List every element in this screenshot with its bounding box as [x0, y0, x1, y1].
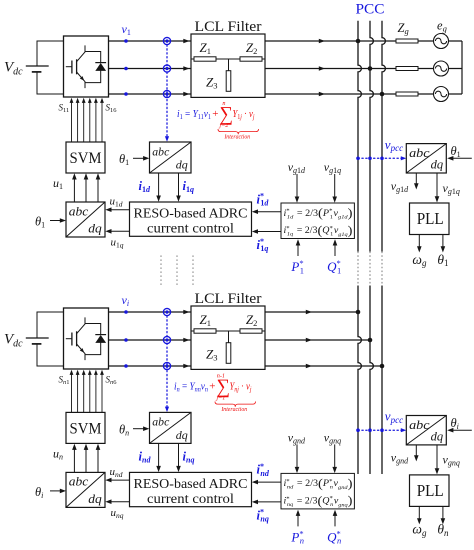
grid impedance Z_g phase A: [396, 39, 418, 43]
u wires dq-to-abc to SVM (n): [72, 444, 100, 473]
i*_d reference wire into RESO (1): [252, 192, 281, 215]
DC source V_dc plates (1): [26, 66, 49, 72]
theta output of PLL (n): [437, 506, 449, 538]
v_pcc measurement dots (1): [356, 157, 384, 161]
current abc-to-dq block (n): [150, 412, 192, 443]
SVM block (n): [66, 412, 105, 443]
svg-text:dq: dq: [88, 221, 102, 236]
svg-text:abc: abc: [152, 415, 170, 429]
svg-text:dq: dq: [431, 430, 444, 444]
svg-text:n: n: [222, 100, 225, 107]
grid impedance Z_g phase C: [396, 92, 418, 96]
svg-text:abc: abc: [152, 144, 170, 158]
svg-text:Interaction: Interaction: [223, 135, 250, 141]
svg-text:n-1: n-1: [217, 373, 225, 380]
v_gq input to power reference box (n): [324, 430, 341, 473]
RESO-based ADRC current control block (n): [130, 472, 252, 507]
admittance interaction equation (1): [177, 100, 259, 140]
svg-text:dq: dq: [176, 428, 188, 442]
i_q wire abc/dq to RESO (1): [176, 173, 194, 202]
v_gd input to power reference box (n): [288, 430, 306, 473]
svg-text:LCL Filter: LCL Filter: [195, 291, 262, 307]
i_d wire abc/dq to RESO (n): [139, 443, 161, 472]
theta input to current abc/dq (n): [119, 422, 149, 437]
LCL filter 1 box: [191, 34, 265, 97]
gate signal labels Sn1 Sn6: [59, 375, 118, 387]
LCL filter n internal single-line: Z1 series: [191, 329, 265, 333]
svg-text:in = Ynnvn: in = Ynnvn: [174, 382, 208, 394]
LCL filter 1 internal single-line: Z1 series: [191, 57, 265, 61]
svg-text:dq: dq: [176, 158, 188, 172]
junction dots at PCC buses (1): [356, 39, 385, 97]
theta output of PLL (1): [437, 235, 448, 269]
Z3 shunt impedance (n): [226, 331, 231, 363]
three-phase PCC bus 2: [370, 21, 373, 252]
svg-text:PLL: PLL: [417, 209, 444, 228]
grid source e_g phase C: [434, 87, 449, 102]
inverter 1 IGBT symbol: [66, 45, 106, 88]
current sensors on dashed measurement line (n): [163, 308, 170, 369]
wire: phase B inverter 1 output: [109, 68, 463, 70]
current abc-to-dq block (1): [150, 142, 192, 173]
i*_q reference wire into RESO (n): [252, 500, 281, 524]
dashed v_pcc wire to abc/dq (n): [358, 409, 406, 433]
Z2 series impedance (1): [240, 57, 262, 61]
grid voltage abc-to-dq block (1): [406, 144, 446, 173]
voltage measurement dots v_n: [124, 310, 128, 368]
Q* reference input (1): [327, 239, 341, 275]
u_q wire RESO to dq-to-abc (n): [105, 499, 129, 519]
wire: phase A inverter n output: [109, 311, 359, 313]
power reference box (n): [281, 473, 354, 509]
svg-text:j=1: j=1: [215, 394, 225, 401]
dashed measurement line to abc/dq (n): [166, 312, 168, 409]
DC source V_dc wires (1): [37, 41, 64, 94]
svg-text:RESO-based ADRC: RESO-based ADRC: [134, 207, 248, 222]
arrowheads on phase lines toward PCC (n): [306, 310, 312, 369]
wire: phase C inverter 1 output: [109, 93, 463, 95]
grid source e_g phase A: [434, 34, 449, 49]
u wires dq-to-abc to SVM (1): [72, 173, 100, 202]
svg-text:PLL: PLL: [417, 481, 444, 500]
wire: phase A inverter 1 output: [109, 40, 463, 42]
svg-text:i1 = Y11v1: i1 = Y11v1: [177, 109, 211, 121]
i*_d reference wire into RESO (n): [252, 462, 281, 484]
voltage measurement dots v_1: [124, 39, 128, 96]
svg-text:P*1: P*1: [290, 258, 304, 275]
Z3 shunt impedance (1): [226, 59, 231, 91]
RESO-based ADRC current control block (1): [130, 202, 252, 237]
svg-text:current control: current control: [147, 492, 234, 507]
admittance interaction equation (n): [174, 373, 256, 413]
svg-text:Q*1: Q*1: [327, 258, 341, 275]
grid voltage abc-to-dq block (n): [406, 416, 446, 445]
junction dots at PCC buses (n): [356, 310, 385, 369]
svg-text:Y1j · vj: Y1j · vj: [233, 109, 255, 121]
svg-text:SVM: SVM: [70, 420, 102, 437]
LCL filter n box: [191, 306, 265, 369]
u_d wire RESO to dq-to-abc (n): [105, 466, 129, 483]
Q* reference input (n): [327, 510, 341, 546]
svg-text:+: +: [212, 108, 218, 120]
grid neutral wire: [461, 41, 463, 94]
u_d wire RESO to dq-to-abc (1): [105, 196, 129, 213]
svg-text:dq: dq: [88, 491, 102, 506]
continuation dotted lines (vertical ellipsis): [161, 255, 193, 286]
svg-text:current control: current control: [147, 222, 234, 237]
DC source V_dc plates (n): [26, 338, 49, 344]
u_q wire RESO to dq-to-abc (1): [105, 229, 129, 249]
v_gd output arrow (1): [391, 173, 419, 194]
arrowheads on phase lines toward PCC (1): [319, 39, 325, 97]
P* reference input (n): [290, 510, 304, 546]
theta input to dq-to-abc block (n): [35, 485, 66, 500]
SVM block (1): [66, 142, 105, 173]
three-phase PCC bus 3: [382, 21, 385, 252]
theta input to dq-to-abc block (1): [35, 215, 66, 230]
wire: phase C inverter n output: [109, 365, 383, 367]
arrowheads on phase lines into LCL filter n: [183, 310, 189, 369]
i_q wire abc/dq to RESO (n): [176, 443, 194, 472]
svg-text:Q*n: Q*n: [327, 529, 341, 546]
v_gq input to power reference box (1): [324, 160, 341, 203]
modulation dq-to-abc block (n): [66, 472, 105, 507]
Z1 Z2 Z3 labels (1): [200, 40, 258, 91]
grid source e_g phase B: [434, 61, 449, 76]
omega_g output of PLL (1): [412, 235, 427, 269]
svg-text:+: +: [209, 381, 215, 393]
v_pcc measurement dots (n): [356, 428, 384, 432]
svg-text:abc: abc: [69, 203, 89, 218]
dashed v_pcc wire to abc/dq (1): [358, 137, 406, 161]
v_gd output arrow (n): [391, 445, 419, 466]
svg-text:abc: abc: [409, 418, 430, 432]
svg-text:Interaction: Interaction: [220, 407, 247, 413]
i*_q reference wire into RESO (1): [252, 229, 281, 253]
current sensors on dashed measurement line (1): [163, 37, 170, 97]
three-phase PCC bus 1: [358, 21, 361, 252]
i_d wire abc/dq to RESO (1): [139, 173, 161, 202]
PLL block (n): [410, 475, 450, 507]
v_gd input to power reference box (1): [288, 160, 306, 203]
svg-text:abc: abc: [409, 146, 430, 160]
v_gq wire to PLL (1): [435, 173, 460, 203]
arrowheads on phase lines into LCL filter 1: [183, 39, 189, 97]
theta input to current abc/dq (1): [119, 152, 149, 167]
modulation dq-to-abc block (1): [66, 202, 105, 237]
svg-text:dq: dq: [431, 158, 444, 172]
Z2 series impedance (n): [240, 329, 262, 333]
inverter n IGBT symbol: [66, 317, 106, 360]
Z1 Z2 Z3 labels (n): [200, 312, 258, 363]
PCC bus dotted continuation segments: [358, 252, 382, 286]
gate drive wires SVM to inverter 1: [70, 98, 104, 142]
svg-text:PCC: PCC: [356, 2, 385, 18]
gate drive wires SVM to inverter n: [70, 370, 104, 413]
power reference box (1): [281, 203, 354, 239]
inverter n box: [64, 308, 109, 369]
omega_g output of PLL (n): [412, 506, 427, 538]
theta input to grid abc/dq (1): [447, 144, 472, 161]
v_gq wire to PLL (n): [435, 445, 460, 475]
svg-text:j=2: j=2: [218, 122, 228, 129]
wire: phase B inverter n output: [109, 339, 371, 341]
DC source V_dc wires (n): [37, 312, 64, 366]
gate signal labels S11 S16: [59, 103, 118, 115]
P* reference input (1): [290, 239, 304, 275]
svg-text:SVM: SVM: [70, 150, 102, 167]
theta input to grid abc/dq (n): [447, 416, 472, 433]
svg-text:P*n: P*n: [290, 529, 304, 546]
inverter 1 box: [64, 36, 109, 97]
grid impedance Z_g phase B: [396, 67, 418, 71]
dashed measurement line to abc/dq (1): [166, 41, 168, 139]
PLL block (1): [410, 203, 450, 235]
svg-text:abc: abc: [69, 474, 89, 489]
svg-text:Ynj · vj: Ynj · vj: [230, 382, 252, 394]
svg-text:RESO-based ADRC: RESO-based ADRC: [134, 477, 248, 492]
svg-text:LCL Filter: LCL Filter: [195, 19, 262, 35]
